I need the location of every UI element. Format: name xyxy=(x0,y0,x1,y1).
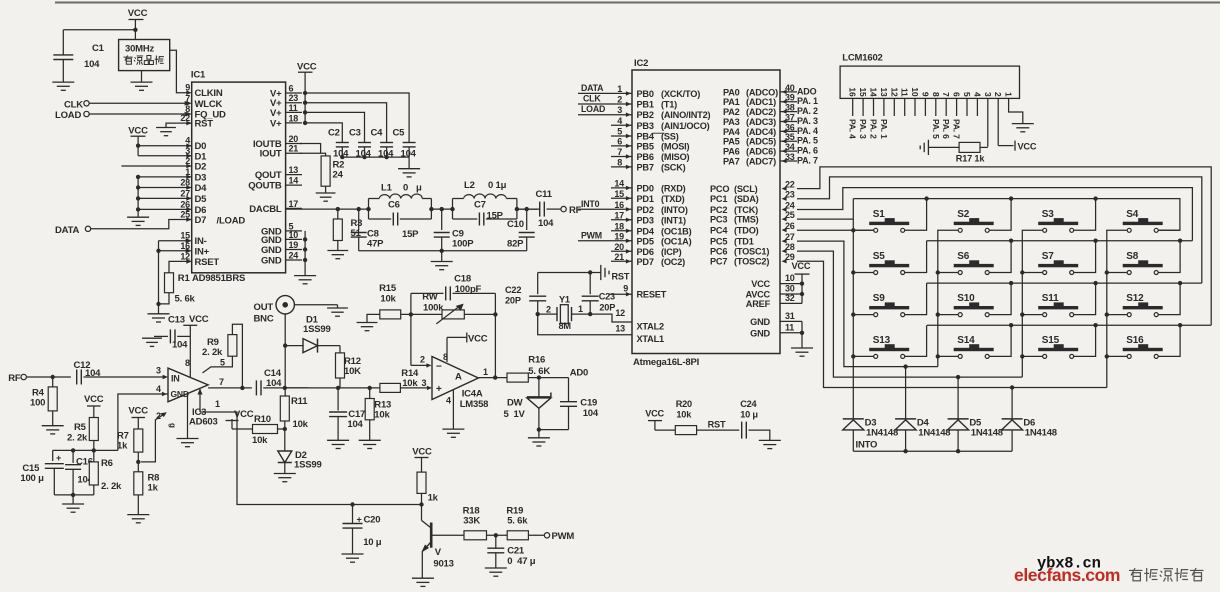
svg-text:S1: S1 xyxy=(873,209,885,220)
svg-text:S14: S14 xyxy=(957,335,975,346)
svg-text:1k: 1k xyxy=(148,483,159,494)
svg-text:/LOAD: /LOAD xyxy=(217,216,246,227)
svg-text:R17 1k: R17 1k xyxy=(956,154,986,164)
watermark chinese xyxy=(1129,569,1143,571)
svg-text:C13: C13 xyxy=(168,315,185,326)
resistor R3 51 xyxy=(337,209,339,219)
wire pin11 to C3 xyxy=(305,112,364,142)
wire C24 to ground xyxy=(749,430,770,440)
node tank1 right xyxy=(430,199,432,220)
capacitor C19 104 xyxy=(560,401,577,403)
svg-text:RF: RF xyxy=(569,205,582,216)
switch S9 xyxy=(869,306,909,309)
switch S2 xyxy=(954,222,994,225)
svg-text:PC5: PC5 xyxy=(710,237,727,247)
svg-text:CLK: CLK xyxy=(64,100,83,111)
svg-text:PD6: PD6 xyxy=(637,247,654,257)
node V+ pin23 xyxy=(303,101,307,105)
node D6 wrap xyxy=(1010,385,1014,389)
resistor 1k collector xyxy=(417,472,426,493)
svg-text:4: 4 xyxy=(156,384,161,394)
switch S16 xyxy=(1123,348,1163,351)
svg-text:PB5: PB5 xyxy=(637,141,654,151)
terminal RF out xyxy=(561,206,566,211)
svg-text:33: 33 xyxy=(785,152,795,162)
svg-text:10k: 10k xyxy=(293,419,309,430)
svg-text:PD0: PD0 xyxy=(637,183,654,193)
svg-text:2: 2 xyxy=(993,92,1003,97)
svg-text:7: 7 xyxy=(617,147,622,157)
svg-text:19: 19 xyxy=(289,240,299,250)
svg-text:10: 10 xyxy=(785,273,795,283)
wire XTAL2 xyxy=(590,314,632,322)
svg-text:22: 22 xyxy=(785,180,795,190)
transistor V 9013 xyxy=(421,505,423,521)
svg-text:D5: D5 xyxy=(195,194,208,205)
svg-text:C5: C5 xyxy=(393,128,406,139)
svg-text:11: 11 xyxy=(900,88,910,97)
svg-text:1N4148: 1N4148 xyxy=(1025,428,1057,439)
svg-text:PA1: PA1 xyxy=(723,97,740,107)
svg-text:BNC: BNC xyxy=(254,314,274,325)
resistor R6 2.2k xyxy=(93,450,95,462)
capacitor C14 104 xyxy=(255,380,257,395)
resistor R9 2.2k xyxy=(228,335,237,357)
svg-text:VCC: VCC xyxy=(468,334,488,345)
svg-text:GND: GND xyxy=(750,329,770,339)
svg-text:3: 3 xyxy=(156,366,161,376)
svg-text:RESET: RESET xyxy=(637,290,667,300)
wire IN- xyxy=(159,240,189,242)
svg-text:S4: S4 xyxy=(1126,209,1138,220)
svg-text:(ADC7): (ADC7) xyxy=(746,157,776,167)
svg-text:VCC: VCC xyxy=(189,314,209,325)
node R13 tap xyxy=(368,386,372,390)
svg-text:12: 12 xyxy=(889,87,899,97)
node R3 tap xyxy=(336,207,340,211)
svg-text:C19: C19 xyxy=(580,398,597,409)
wire D0 line xyxy=(138,145,192,147)
svg-text:S10: S10 xyxy=(957,293,975,304)
svg-text:6: 6 xyxy=(952,92,962,97)
inductor L1 0.1u xyxy=(368,199,370,220)
node R15 RW junction xyxy=(401,313,442,315)
node rail4 row3 xyxy=(1105,312,1109,316)
svg-text:PA7: PA7 xyxy=(723,157,740,167)
svg-text:33K: 33K xyxy=(463,516,480,527)
ground sideways R17 xyxy=(927,140,929,155)
wire BNC shield to ground xyxy=(294,304,337,306)
wire IOUTB pin20 xyxy=(300,144,321,154)
wire DACBL main line xyxy=(286,208,369,210)
svg-text:35: 35 xyxy=(785,132,795,142)
svg-text:0 1μ: 0 1μ xyxy=(488,180,507,191)
svg-text:AD603: AD603 xyxy=(189,417,218,428)
ground under R4 xyxy=(52,411,54,426)
node rail1 row1 xyxy=(851,228,855,232)
svg-text:5: 5 xyxy=(962,92,972,97)
svg-text:5. 6k: 5. 6k xyxy=(507,516,528,527)
svg-text:S8: S8 xyxy=(1126,251,1138,262)
wire D1 to R12 xyxy=(339,346,341,353)
svg-text:5. 6K: 5. 6K xyxy=(528,366,550,377)
wire INT0 bus xyxy=(853,450,1012,452)
svg-text:PWM: PWM xyxy=(581,230,602,240)
wire V+ rail xyxy=(304,93,306,123)
wire S2 right lead xyxy=(989,199,1011,231)
svg-text:VCC: VCC xyxy=(128,8,148,19)
node rail2 row4 xyxy=(936,354,940,358)
svg-text:(ADC1): (ADC1) xyxy=(746,97,776,107)
wire row2 bus xyxy=(927,240,1193,242)
svg-text:(SDA): (SDA) xyxy=(734,194,759,204)
node R6 top xyxy=(92,448,96,452)
svg-text:30: 30 xyxy=(785,284,795,294)
wire S5 left lead xyxy=(853,272,873,274)
wire R9 top feedback xyxy=(232,324,242,388)
node IN junction xyxy=(158,241,160,304)
svg-text:C7: C7 xyxy=(474,200,486,211)
wire S8 left lead xyxy=(1107,272,1127,274)
capacitor C12 104 xyxy=(76,370,78,385)
ground under C20 xyxy=(342,553,364,555)
svg-text:(SCK): (SCK) xyxy=(661,162,686,172)
svg-text:C24: C24 xyxy=(740,399,757,409)
svg-text:QOUT: QOUT xyxy=(255,170,282,181)
svg-text:C11: C11 xyxy=(536,189,553,200)
resistor R7 1k xyxy=(134,429,143,452)
wire pin6 to C5 xyxy=(305,93,409,142)
svg-text:R16: R16 xyxy=(528,355,545,366)
wire S15 right lead xyxy=(1074,325,1096,356)
svg-text:ADO: ADO xyxy=(797,86,817,96)
svg-text:PA. 6: PA. 6 xyxy=(797,146,818,156)
svg-text:100P: 100P xyxy=(452,239,474,250)
svg-text:(INT1): (INT1) xyxy=(661,215,686,225)
svg-text:23: 23 xyxy=(289,93,299,103)
svg-text:PA5: PA5 xyxy=(723,137,740,147)
svg-text:(TDO): (TDO) xyxy=(734,226,759,236)
svg-text:LOAD: LOAD xyxy=(55,110,81,121)
capacitor C5 xyxy=(403,142,416,144)
svg-text:PA. 1: PA. 1 xyxy=(879,119,889,139)
wire AD0 to C19 xyxy=(568,378,570,401)
node row1 bus S3 xyxy=(1093,196,1097,200)
wire S1 right lead xyxy=(905,199,927,231)
svg-text:WLCK: WLCK xyxy=(195,99,223,110)
svg-text:GND: GND xyxy=(261,256,282,267)
wire AD603 pin1 gain line xyxy=(199,389,201,412)
switch S10 xyxy=(954,306,994,309)
capacitor C23 20P xyxy=(589,273,591,295)
svg-text:28: 28 xyxy=(180,178,190,188)
wire column rail 3 xyxy=(1022,230,1044,377)
svg-text:3: 3 xyxy=(617,105,622,115)
ground under C5 xyxy=(398,168,420,170)
switch S7 xyxy=(1038,264,1078,267)
node D0-VCC xyxy=(136,144,140,148)
svg-text:(OC1B): (OC1B) xyxy=(661,226,692,236)
svg-text:13: 13 xyxy=(615,324,625,334)
svg-text:32: 32 xyxy=(785,293,795,303)
svg-text:AREF: AREF xyxy=(746,299,771,309)
capacitor C16 104 xyxy=(72,450,74,463)
ground under R3 xyxy=(337,241,339,251)
svg-text:VCC: VCC xyxy=(412,447,432,458)
wire S4 right lead xyxy=(1158,229,1180,231)
svg-text:PC3: PC3 xyxy=(710,215,727,225)
node C16 bottom xyxy=(71,493,75,497)
capacitor C7 15P xyxy=(453,218,478,220)
wire S11 right lead xyxy=(1074,283,1096,315)
node GND pin24 xyxy=(303,258,307,262)
svg-text:3: 3 xyxy=(983,92,993,97)
svg-text:10k: 10k xyxy=(676,410,692,420)
svg-text:104: 104 xyxy=(538,218,554,229)
capacitor C20 10u electrolytic xyxy=(352,505,354,524)
ground under D2 xyxy=(274,473,296,475)
svg-text:1k: 1k xyxy=(117,441,128,452)
node collector junction xyxy=(419,502,423,506)
svg-text:104: 104 xyxy=(84,59,100,70)
wire IOUT pin21 to R2 xyxy=(300,153,326,156)
svg-text:6: 6 xyxy=(289,84,294,94)
switch S15 xyxy=(1038,348,1078,351)
svg-text:PD1: PD1 xyxy=(637,194,654,204)
terminal PWM xyxy=(528,534,544,536)
node row3 bus dots xyxy=(1009,281,1013,285)
svg-text:2. 2k: 2. 2k xyxy=(101,481,122,492)
wire collector node xyxy=(421,493,423,504)
wire S9 left lead xyxy=(853,314,873,316)
wire output line to R14 xyxy=(285,387,380,389)
svg-text:4: 4 xyxy=(617,116,622,126)
svg-text:1SS99: 1SS99 xyxy=(294,460,322,471)
svg-text:10 μ: 10 μ xyxy=(363,537,382,548)
svg-text:S11: S11 xyxy=(1042,293,1059,304)
node C8 tap xyxy=(357,207,361,211)
node C20 tap xyxy=(350,502,354,506)
node Y1 left xyxy=(536,312,540,316)
inductor L2 0.1u xyxy=(452,199,454,220)
svg-text:C21: C21 xyxy=(507,546,525,557)
wire D5 riser xyxy=(957,377,959,419)
svg-text:10 μ: 10 μ xyxy=(740,410,758,420)
pin stubs LCM1602 xyxy=(852,98,854,116)
svg-text:C4: C4 xyxy=(371,128,384,139)
svg-text:C23: C23 xyxy=(599,292,615,302)
svg-text:VCC: VCC xyxy=(792,261,811,271)
node D4 rail xyxy=(136,185,140,189)
diode D4 1N4148 xyxy=(895,418,916,420)
svg-text:DW: DW xyxy=(507,398,523,409)
svg-text:(AIN1/OCO): (AIN1/OCO) xyxy=(661,121,710,131)
svg-text:104: 104 xyxy=(347,419,363,430)
svg-text:R20: R20 xyxy=(676,399,692,409)
svg-text:VCC: VCC xyxy=(1018,142,1037,152)
svg-text:INTO: INTO xyxy=(856,440,878,451)
switch S4 xyxy=(1123,222,1163,225)
capacitor C2 xyxy=(336,142,349,144)
wire PC7 wrap to col4 xyxy=(797,261,1107,387)
svg-text:RF: RF xyxy=(8,373,21,384)
wire S7 left lead xyxy=(1022,272,1042,274)
svg-text:20: 20 xyxy=(289,134,299,144)
svg-text:R11: R11 xyxy=(291,396,308,407)
node C9 tap xyxy=(440,207,444,211)
svg-text:14: 14 xyxy=(868,87,878,97)
svg-text:S16: S16 xyxy=(1126,335,1144,346)
svg-text:D3: D3 xyxy=(195,172,207,183)
node R4 tap xyxy=(51,375,55,379)
wire S12 right lead xyxy=(1158,283,1180,315)
resistor R18 33K xyxy=(464,531,487,540)
svg-text:+: + xyxy=(436,384,442,395)
wire PC1 to top bus2 xyxy=(797,177,1202,283)
svg-text:27: 27 xyxy=(180,188,190,198)
node rail1 row4 xyxy=(851,354,855,358)
wire column rail 4 xyxy=(1107,230,1129,387)
ground under D-rail xyxy=(127,216,149,218)
wire S7 right lead xyxy=(1074,241,1096,273)
resistor R16 5.6K xyxy=(507,373,528,382)
wire D6 riser xyxy=(1011,388,1013,419)
svg-text:Atmega16L-8PI: Atmega16L-8PI xyxy=(633,357,699,368)
node row2 bus dots xyxy=(1009,239,1013,243)
svg-text:XTAL2: XTAL2 xyxy=(637,322,665,332)
node VCC-osc junction xyxy=(133,28,137,32)
op-amp IC4A LM358 xyxy=(432,357,478,400)
svg-text:1N4148: 1N4148 xyxy=(971,428,1003,439)
svg-text:PC2: PC2 xyxy=(710,205,727,215)
wire S15 left lead xyxy=(1022,355,1042,357)
svg-text:PA0: PA0 xyxy=(723,87,740,97)
node INT0 D5 xyxy=(956,449,960,453)
svg-text:VCC: VCC xyxy=(751,279,770,289)
svg-text:PA. 2: PA. 2 xyxy=(797,106,818,116)
svg-text:PD4: PD4 xyxy=(637,226,655,236)
wire column rail 2 xyxy=(938,230,960,366)
wire S5 right lead xyxy=(905,241,927,273)
svg-text:PA. 3: PA. 3 xyxy=(797,116,818,126)
wire RW right and C18 right to output xyxy=(464,313,495,315)
ground under C17 xyxy=(327,439,349,441)
svg-text:38: 38 xyxy=(785,103,795,113)
svg-text:5. 6k: 5. 6k xyxy=(175,294,196,305)
svg-text:+: + xyxy=(357,515,362,525)
svg-text:8: 8 xyxy=(931,92,941,97)
wire BNC down xyxy=(284,314,286,346)
zener DW 5.1V xyxy=(538,378,540,397)
wire S14 right lead xyxy=(989,325,1011,356)
svg-text:9: 9 xyxy=(920,92,930,97)
wire S9 right lead xyxy=(905,283,927,315)
svg-text:18: 18 xyxy=(614,221,624,231)
node rail3 row2 xyxy=(1020,270,1024,274)
resistor R17 1k xyxy=(928,146,959,148)
svg-text:LM358: LM358 xyxy=(460,399,489,410)
svg-text:1: 1 xyxy=(1004,92,1014,97)
wire VCC to C1 and oscillator xyxy=(63,29,135,31)
node rail2 row2 xyxy=(936,270,940,274)
potentiometer RW 100k xyxy=(442,310,464,319)
svg-text:13: 13 xyxy=(879,87,889,97)
op IC2 box ATmega16 xyxy=(632,70,780,354)
svg-text:11: 11 xyxy=(289,103,298,113)
svg-text:XTAL1: XTAL1 xyxy=(637,334,665,344)
svg-text:25: 25 xyxy=(785,210,795,220)
switch S3 xyxy=(1038,222,1078,225)
resistor R14 10k xyxy=(380,383,401,392)
capacitor C4 xyxy=(380,142,393,144)
svg-text:PWM: PWM xyxy=(552,531,575,542)
node C9 bottom junction xyxy=(440,249,444,253)
svg-text:19: 19 xyxy=(614,231,624,241)
svg-text:D7: D7 xyxy=(195,215,207,226)
svg-text:(ADCO): (ADCO) xyxy=(746,87,778,97)
wire DW C19 bottom junction xyxy=(538,408,540,438)
svg-text:C22: C22 xyxy=(505,285,521,295)
svg-text:D4: D4 xyxy=(195,183,208,194)
svg-text:15P: 15P xyxy=(402,229,419,240)
svg-text:RST: RST xyxy=(612,272,630,282)
wire S16 right lead xyxy=(1158,325,1180,356)
svg-text:21: 21 xyxy=(289,144,299,154)
svg-text:L2: L2 xyxy=(464,180,475,191)
wire bottom bus C15 C16 R6 xyxy=(93,485,95,495)
wire S14 left lead xyxy=(938,355,958,357)
svg-text:PA. 5: PA. 5 xyxy=(797,136,818,146)
svg-text:D2: D2 xyxy=(195,162,207,173)
node rail1 row2 xyxy=(851,270,855,274)
wire S10 left lead xyxy=(938,314,958,316)
ground under C16 xyxy=(72,495,74,504)
node Y1 right xyxy=(588,312,592,316)
wire PC6 wrap to col3 xyxy=(797,251,1022,377)
wire R15 left to ground xyxy=(367,314,380,322)
resistor R5 2.2k xyxy=(89,418,98,441)
wire S13 right lead xyxy=(905,325,927,356)
svg-text:24: 24 xyxy=(333,170,344,181)
ground under R2 xyxy=(325,186,327,193)
svg-text:C6: C6 xyxy=(388,200,400,211)
wire row4 bus xyxy=(927,324,1211,326)
svg-text:PB0: PB0 xyxy=(637,89,654,99)
svg-text:10: 10 xyxy=(910,87,920,97)
svg-text:8: 8 xyxy=(185,358,190,368)
svg-text:(RXD): (RXD) xyxy=(661,183,686,193)
svg-text:(TOSC1): (TOSC1) xyxy=(734,247,769,257)
svg-text:18: 18 xyxy=(289,113,299,123)
capacitor C6 15P xyxy=(369,218,392,220)
node C16 top xyxy=(71,448,75,452)
capacitor C13 104 xyxy=(154,335,168,337)
svg-text:PA6: PA6 xyxy=(723,147,740,157)
svg-text:+: + xyxy=(56,453,61,463)
capacitor C8 47P xyxy=(358,209,360,230)
svg-text:1N4148: 1N4148 xyxy=(866,428,898,439)
svg-text:10: 10 xyxy=(289,230,299,240)
svg-text:PB7: PB7 xyxy=(637,162,654,172)
svg-text:V: V xyxy=(435,547,442,558)
svg-text:VCC: VCC xyxy=(297,62,317,73)
svg-text:5: 5 xyxy=(220,358,225,368)
svg-text:IN+: IN+ xyxy=(195,246,210,257)
node D1 junction xyxy=(283,343,287,347)
svg-text:1k: 1k xyxy=(428,493,439,504)
svg-text:PA. 6: PA. 6 xyxy=(941,119,951,139)
wire R10 to R11 bottom xyxy=(278,428,285,430)
